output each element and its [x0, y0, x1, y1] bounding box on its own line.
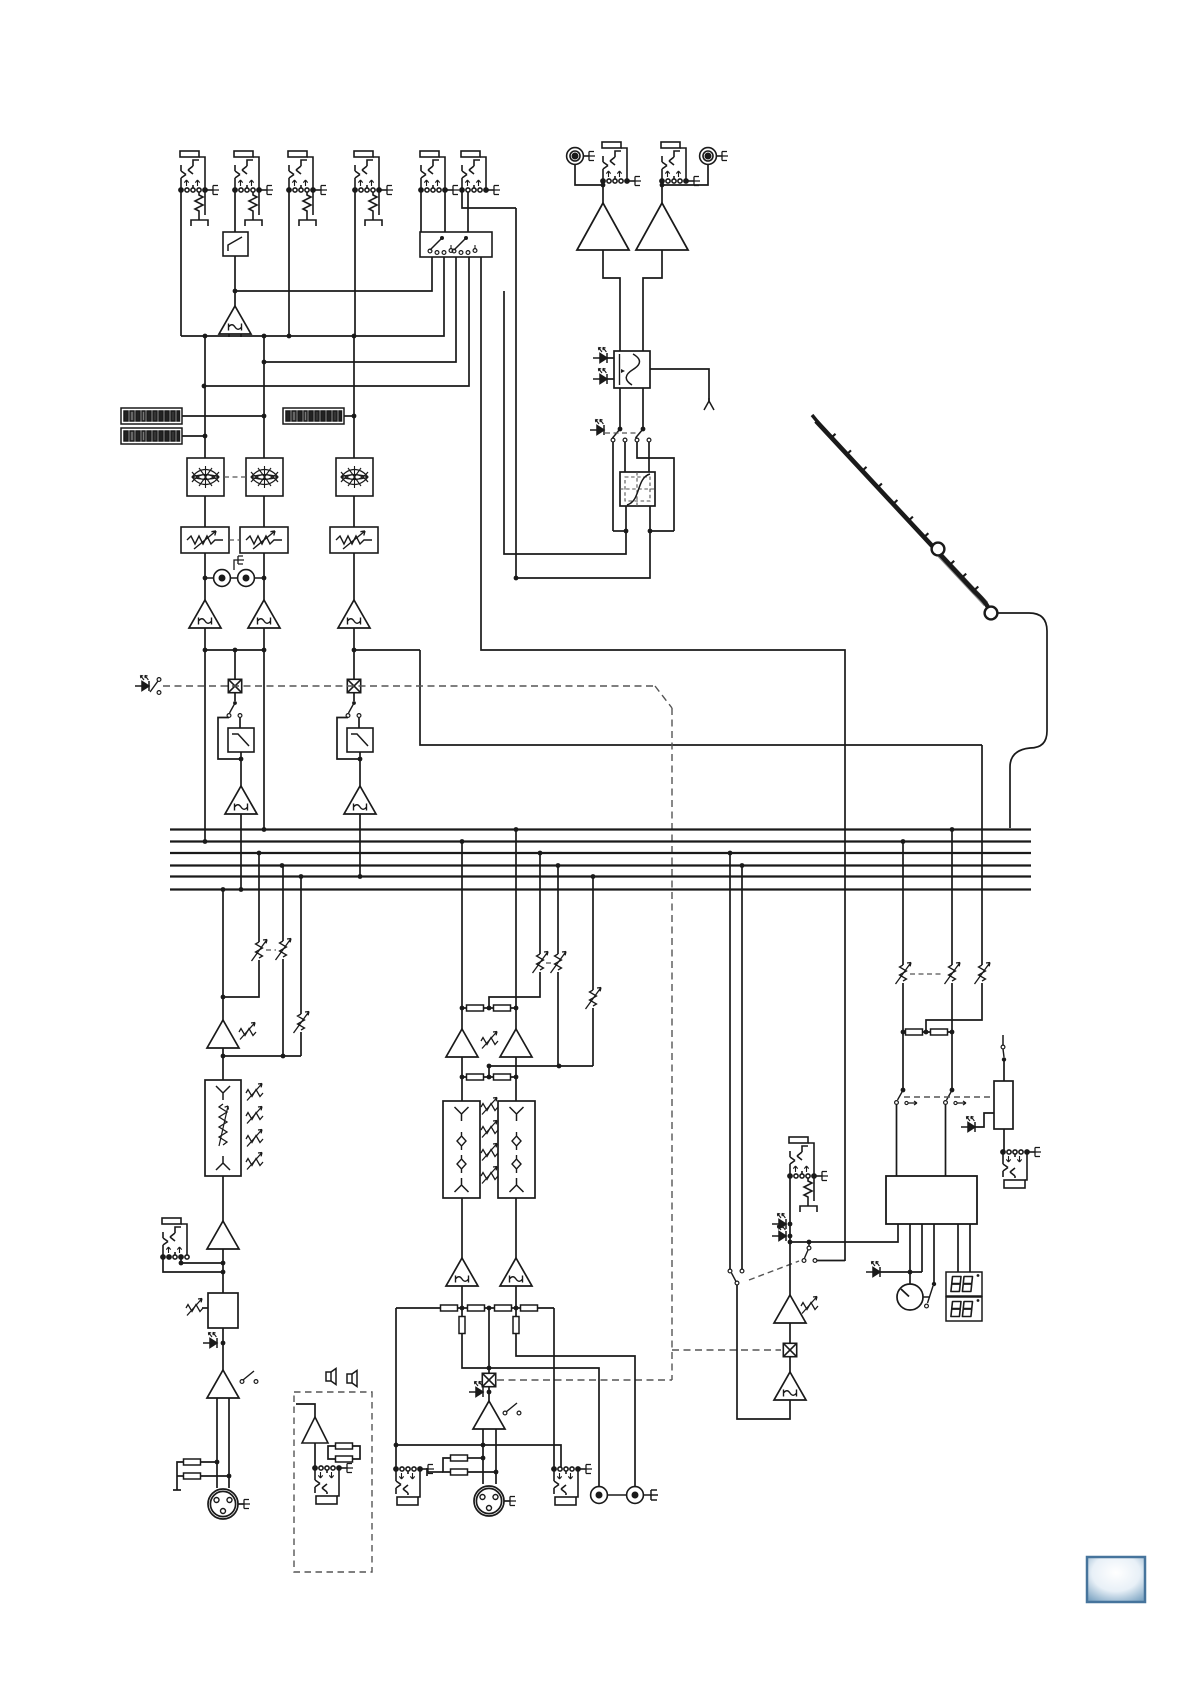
wire aux1 to sum [223, 960, 259, 997]
mic EQ block E4 [205, 1080, 241, 1176]
wire meter M1 to ch2 [182, 415, 264, 417]
dashed control to master X-box [497, 1379, 672, 1381]
high-pass filter box F1 [223, 232, 248, 256]
wire aux2 down [282, 866, 284, 942]
RCA connector CN1 [567, 148, 595, 165]
bus line 2 [170, 840, 1031, 842]
junction dots mic sum [221, 995, 286, 1059]
blue page button icon [1087, 1557, 1145, 1602]
junction dots top-left [202, 289, 357, 389]
input routing switch box S1 [420, 232, 492, 257]
master out jack J11 [394, 1465, 434, 1506]
RCA connector CN2 [700, 148, 728, 165]
wire to jack J11 [395, 1445, 397, 1469]
wire amp U8 to limiter [222, 1249, 224, 1293]
wire ch3 EQ to fader [353, 496, 355, 527]
LED D7 phones [772, 1213, 786, 1229]
rec out RCA pair [591, 1487, 658, 1504]
low-pass filter box ch3 [347, 728, 373, 752]
wire gen to switch S2a [619, 388, 621, 429]
wire ch3 vertical upper [353, 336, 355, 458]
input jack J1 (line in L) [179, 151, 219, 226]
EQ block E2 [246, 458, 283, 496]
junction dot LPF ch1/2 [239, 757, 244, 762]
master amp U12 [500, 1029, 532, 1057]
booth mute switch S7a [895, 1088, 917, 1105]
wire ch2 EQ to fader [263, 496, 265, 527]
XLR connector CN4 [474, 1486, 516, 1516]
LED D4 mute control [135, 675, 149, 691]
wire aux1 down [258, 853, 260, 942]
wire U13 to row3 [461, 1286, 463, 1308]
wire routing out2 / node row A [181, 257, 444, 336]
dashed headphone select link [749, 1261, 799, 1280]
wire sum to amp U7 [222, 997, 224, 1020]
wire S7b to DSP box [945, 1105, 947, 1177]
out resistor R12 [521, 1305, 538, 1311]
wire row3 left down [395, 1308, 397, 1445]
wire LED row [880, 1271, 922, 1273]
sum resistor R8 [494, 1074, 511, 1080]
master out amp U14 [500, 1258, 532, 1286]
wire U2 out to generator box [603, 250, 620, 351]
bypass wire ch3 [337, 718, 360, 760]
wire booth L to switch [902, 983, 904, 1090]
mute switch S3 [150, 678, 161, 695]
headphone level pot P21 [801, 1297, 818, 1314]
bus line 4 [170, 864, 1031, 866]
wire J5 tip to switch box [420, 192, 422, 232]
gain pot P7 [239, 1023, 256, 1040]
wire mic out leg R [228, 1398, 230, 1488]
wire ch2 amp to bus [263, 628, 265, 829]
input jack J4 [353, 151, 393, 226]
balance pot P16 [481, 1032, 498, 1049]
wire master L down [461, 842, 463, 1030]
wire node row 1056 [223, 1055, 301, 1057]
wire ch1 amp to bus [204, 628, 206, 842]
wire switch to monitor feed [817, 1260, 845, 1262]
mono resistor R15 [451, 1455, 468, 1461]
wire aux3 down [300, 877, 302, 1015]
wire headphone loop [737, 1285, 790, 1419]
sum resistor R5 [467, 1005, 484, 1011]
junction dot master LED [487, 1390, 492, 1395]
dashed control diagonal [655, 686, 672, 708]
wire CN1 to J7 node [575, 164, 603, 185]
LED D2 at generator [593, 368, 607, 384]
wire aux2 to node 1056 [282, 959, 284, 1056]
wire bus to mic sum [222, 890, 224, 998]
mic insert jack J9 [161, 1218, 189, 1259]
wire HPF to amp U1 [234, 256, 236, 291]
wire EQ L out [461, 1198, 463, 1258]
row1 dots [460, 1006, 519, 1011]
booth pot P23 [945, 963, 961, 985]
wire node to amp U1 [234, 291, 236, 306]
wire mono out leg L [482, 1429, 484, 1484]
master out jack J12 [552, 1465, 592, 1506]
LED D10 meter [866, 1261, 880, 1277]
crossfader curve box XF1 [620, 472, 655, 506]
wire R pair left [443, 1458, 451, 1472]
bus line 6 [170, 888, 1031, 890]
mic EQ pot P9 [246, 1107, 263, 1124]
bus tap dot ch1/2 [239, 887, 244, 892]
switch S2b [635, 429, 651, 442]
wire R15 join [467, 1457, 483, 1459]
out resistor R11 [495, 1305, 512, 1311]
master pot P13 [533, 952, 549, 974]
DSP box B3 [886, 1176, 977, 1224]
wire option resistors left [328, 1446, 336, 1459]
wire X-box to switch ch1/2 [234, 693, 236, 701]
wire DSP out 2 [921, 1224, 923, 1272]
insert junction dots [179, 1261, 226, 1275]
wire EQ R out [515, 1198, 517, 1258]
wire DSP out meter [909, 1224, 911, 1284]
phono preamp U3 [636, 203, 688, 250]
wire into crossfader R [648, 442, 650, 472]
wire amp to bus ch3 [359, 814, 361, 877]
level fader P2 [240, 527, 288, 553]
wire meter M3 to ch3 [344, 415, 354, 417]
wire LPF out ch1/2 [240, 752, 242, 786]
wire S2 to right bypass [637, 442, 674, 531]
option jack J10 [313, 1464, 353, 1505]
wire X-box to amp U15 [488, 1387, 490, 1401]
wire U11 out [461, 1057, 463, 1077]
wire R1 to leg [200, 1461, 217, 1463]
wire ch1 vertical upper [204, 336, 206, 458]
node 1066 dots [487, 1064, 562, 1069]
wire S8 to fader [1003, 1060, 1005, 1081]
level fader P1 [181, 527, 229, 553]
wire option amp out [314, 1443, 316, 1468]
wire P14 to node [557, 972, 559, 1066]
wire aux master down [592, 877, 594, 991]
option amp U10 [302, 1417, 328, 1443]
wire monitor node to DSP [790, 1224, 898, 1242]
wire S2a bypass down [612, 442, 614, 531]
wire U14 to row3 [515, 1286, 517, 1308]
wire node row 1066 [489, 1065, 593, 1067]
wire mic out leg L [216, 1398, 218, 1488]
wire pot to limiter [202, 1307, 208, 1309]
crossfader hardware illustration [812, 415, 997, 619]
XLR connector CN3 [208, 1489, 250, 1519]
aux pot P5 [276, 939, 292, 961]
stub tick 2 [426, 1468, 428, 1476]
LED D3 at switch row [590, 419, 604, 435]
wire ch2 vertical upper [263, 336, 265, 458]
mic EQ pot P11 [246, 1153, 263, 1170]
meter pot M4 [897, 1284, 930, 1310]
wire crossfader out L loop [504, 291, 626, 554]
wire LED D2 [607, 378, 614, 380]
wire routing out3 / node row B [264, 257, 456, 362]
headphone X-box K4 [783, 1343, 796, 1356]
master EQ pot P20 [481, 1167, 498, 1184]
booth pot P22 [896, 963, 912, 985]
wire X-box to U16 [789, 1357, 791, 1372]
junction dot rec node [487, 1366, 492, 1371]
wire sub L down [539, 853, 541, 954]
wire DSP to display 1 [957, 1224, 959, 1272]
dashed gang link faders [229, 539, 240, 541]
meter range switch S9 [925, 1282, 937, 1308]
master pot P14 [551, 952, 567, 974]
dashed option box [294, 1392, 372, 1572]
wire LPF out ch3 [359, 752, 361, 786]
out resistor R9 [441, 1305, 458, 1311]
mic/line amp U1 [219, 306, 251, 334]
amp U1 leg R [240, 334, 242, 337]
junction dots below crossfader [514, 529, 653, 581]
terminating resistor R2 [184, 1473, 201, 1479]
tape out RCA pair [205, 556, 264, 586]
wire booth L down [902, 842, 904, 966]
mic resistor junction dots [215, 1460, 232, 1479]
mic EQ pot P10 [246, 1130, 263, 1147]
bus line 1 [170, 828, 1031, 830]
wire sub R down [557, 866, 559, 955]
wire EQ to amp U8 [222, 1176, 224, 1221]
wire into LPF ch3 [358, 718, 360, 729]
wire routing out4 / node row C [204, 257, 469, 386]
level fader P3 [330, 527, 378, 553]
EQ block E3 [336, 458, 373, 496]
EQ block E1 [187, 458, 224, 496]
dashed gang link S2 [605, 432, 638, 434]
wire mono loop to jack [396, 1445, 561, 1469]
kill switch ch1/2 [227, 701, 242, 717]
junction dots at row 650 [203, 648, 357, 653]
dashed gang aux pots [266, 949, 276, 951]
wire mono out leg R [495, 1429, 497, 1484]
wire crossfader out R loop [516, 506, 650, 578]
antenna fork symbol [704, 398, 714, 410]
mono amp switch S5 [503, 1403, 521, 1415]
LED D5 mic [203, 1332, 217, 1348]
aux master pot P15 [586, 988, 602, 1010]
LED D9 fader [961, 1116, 975, 1132]
mic amp switch S4 [240, 1371, 258, 1383]
mono amp U15 [473, 1401, 505, 1429]
wire PFL R down [741, 866, 743, 1270]
aux pot P6 [294, 1012, 310, 1034]
kill switch ch3 [346, 701, 361, 717]
bus tap dot ch3 [358, 874, 363, 879]
master EQ pot P17 [481, 1098, 498, 1115]
booth row dots [901, 1030, 955, 1035]
headphone source contacts [728, 1269, 744, 1285]
junction dots at switch S2 [618, 427, 646, 432]
option resistor R4 [336, 1456, 353, 1462]
junction dot mic LED [221, 1341, 226, 1346]
dashed mute control line [163, 685, 655, 687]
wire J8 to amp U3 [661, 183, 663, 203]
monitor jack J14 [1001, 1148, 1041, 1189]
wire long feed to booth level [420, 650, 982, 745]
VCA X-box K1 [228, 679, 241, 692]
input jack J5 [419, 151, 459, 195]
aux pot P4 [252, 940, 268, 962]
wire bypass R join [650, 530, 674, 532]
booth resistor R17 [906, 1029, 923, 1035]
wire U17 to X-box [789, 1321, 791, 1343]
wire U12 out [515, 1057, 517, 1077]
wire R2 to leg [200, 1475, 229, 1477]
wire DSP to display 2 [969, 1224, 971, 1272]
mono resistor dots [481, 1456, 499, 1475]
wire ch2 fader to amp [263, 553, 265, 600]
master EQ block E6 [498, 1101, 535, 1198]
LED D1 at generator [593, 347, 607, 363]
terminating resistor R1 [184, 1459, 201, 1465]
wire ch1-ch2 node at 650 [205, 649, 264, 651]
wire J3 to node row A [288, 192, 290, 336]
wire S7a to DSP box [896, 1105, 898, 1177]
wire to X-box 1 [234, 650, 236, 679]
wire booth R down [951, 830, 953, 966]
monitor switch S6 [802, 1240, 817, 1263]
bus line 3 [170, 852, 1031, 854]
wire LED to fader box [975, 1113, 994, 1127]
out resistor R10 [468, 1305, 485, 1311]
headphone amp U16 [774, 1372, 806, 1400]
wire master R down [515, 830, 517, 1030]
wire ch3 amp to X point [353, 628, 355, 679]
switch S2a [611, 429, 627, 442]
booth pot P24 [975, 963, 991, 985]
wire J6 tip right [462, 192, 516, 208]
7-segment display DS1 [946, 1272, 982, 1296]
dashed link to fader box [904, 1096, 994, 1098]
wire rec out R [516, 1308, 635, 1486]
wire J2 to HPF [234, 192, 236, 232]
wire R16 join [467, 1471, 496, 1473]
wire fader to jack J14 [1003, 1129, 1005, 1152]
channel amp U5 [248, 600, 280, 628]
monitor fader box B2 [994, 1081, 1013, 1129]
dashed gang booth pots [910, 973, 944, 975]
fader start switch S8 [1001, 1035, 1006, 1062]
wire amp to bus ch1/2 [240, 814, 242, 890]
row3 dots [460, 1306, 519, 1311]
post-LPF amp ch3 [344, 786, 376, 814]
phones jack J13 [788, 1137, 828, 1212]
wire routing out1 to amp U1 input [235, 257, 432, 291]
dashed control vertical [671, 708, 673, 1380]
junction dot LPF ch3 [358, 757, 363, 762]
booth mute switch S7b [944, 1088, 966, 1105]
mic EQ pot P8 [246, 1084, 263, 1101]
wire option amp input [296, 1404, 315, 1417]
wire pot P13 out [489, 972, 540, 1008]
wire generator out right [650, 369, 709, 401]
dashed gang link EQ [224, 476, 246, 478]
dashed control to headphone X-box [672, 1349, 781, 1351]
wire amp U7 out [222, 1048, 224, 1080]
wire row3 right down [553, 1308, 555, 1469]
stub left [427, 1471, 443, 1473]
limiter pot P12 [186, 1299, 203, 1316]
wire ch3 fader to amp [353, 553, 355, 600]
tape out junction dots [203, 576, 267, 581]
wire booth R to switch [951, 983, 953, 1090]
master amp U11 [446, 1029, 478, 1057]
sum resistor R7 [467, 1074, 484, 1080]
phono input jack J8 [660, 142, 700, 186]
wire meter M2 to ch1 [182, 435, 205, 437]
master EQ pot P19 [481, 1144, 498, 1161]
wire J6 ring to switch box [467, 192, 469, 232]
headphone amp U17 [774, 1295, 806, 1323]
wire aux3 to node [300, 1032, 302, 1056]
bar meter M3 [283, 408, 344, 424]
wire bypass L join [613, 530, 626, 532]
amp U1 leg L [228, 334, 230, 337]
wire R pair left join [177, 1462, 184, 1490]
LED D8 phones [772, 1225, 786, 1241]
7-segment display DS2 [946, 1297, 982, 1321]
wire J6 feed down to crossfader node [515, 208, 517, 578]
wire insert send [181, 1259, 223, 1263]
wire to EQ L [461, 1077, 463, 1101]
wire routing out5 long feed to monitor switch [481, 257, 845, 1261]
wire CN2 to J8 node [662, 164, 708, 185]
junction dots phono nodes [601, 183, 665, 188]
wire insert return [163, 1259, 223, 1272]
junction dot meter row [908, 1270, 913, 1275]
wire booth feed down [981, 745, 983, 965]
bypass wire ch1/2 [218, 718, 241, 760]
wire DSP out 3 [933, 1224, 935, 1284]
channel amp U4 [189, 600, 221, 628]
channel amp U6 [338, 600, 370, 628]
mic amp U8 [207, 1221, 239, 1249]
booth sum row [903, 1031, 952, 1033]
mic amp U7 [207, 1020, 239, 1048]
phono input jack J7 [601, 142, 641, 186]
mono X-box K3 [482, 1373, 495, 1386]
wire into LPF ch1/2 [239, 718, 241, 729]
wire ch1 fader to amp [204, 553, 206, 600]
wire phones jack chain [789, 1176, 791, 1295]
limiter box B1 [208, 1293, 238, 1328]
wire node to row2 [488, 1066, 490, 1077]
wire ch3 node right [353, 649, 420, 651]
wire into crossfader L [624, 442, 626, 472]
meter junction dots [203, 414, 357, 439]
wire rec out L [462, 1308, 599, 1486]
master EQ block E5 [443, 1101, 480, 1198]
sum resistor R6 [494, 1005, 511, 1011]
wire U3 out to generator box [643, 250, 662, 351]
wire LED D1 [607, 357, 614, 359]
output row 3 [396, 1307, 554, 1309]
input jack J2 (line in R) [233, 151, 273, 226]
wire X-box to switch ch3 [353, 693, 355, 701]
wire ch1 EQ to fader [204, 496, 206, 527]
oscillator/talkover box G1 [614, 351, 650, 388]
input jack J3 [287, 151, 327, 226]
mono resistor R16 [451, 1469, 468, 1475]
build-out resistor R14 [513, 1317, 519, 1334]
wire R2 left [177, 1475, 184, 1477]
wire to EQ R [515, 1077, 517, 1101]
